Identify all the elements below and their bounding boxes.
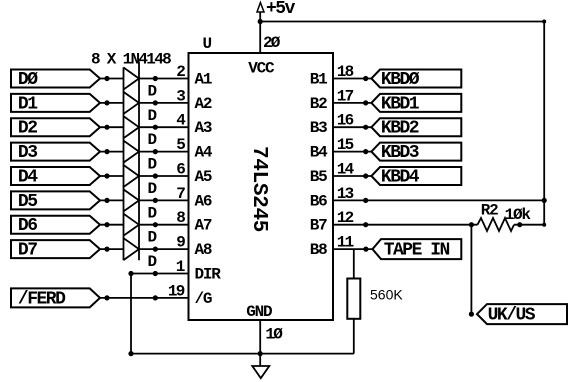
svg-text:D2: D2	[18, 119, 37, 139]
wire diode to pin A7	[139, 224, 189, 226]
wire GND pin 10	[259, 320, 261, 366]
diode D6 (1N4148)	[124, 189, 140, 211]
wire DIR pin 1	[131, 273, 189, 275]
node D4: net tag	[11, 167, 100, 185]
wire R2 to +5v rail	[514, 224, 544, 226]
wire B7 node down to UK/US (vertical)	[470, 225, 472, 314]
wire diode to pin A3	[139, 126, 189, 128]
power +5v symbol	[257, 3, 264, 13]
svg-text:12: 12	[337, 209, 354, 227]
svg-text:D3: D3	[18, 143, 37, 163]
svg-text:A6: A6	[195, 192, 212, 210]
svg-text:11: 11	[337, 234, 354, 252]
svg-text:A2: A2	[195, 95, 212, 113]
svg-text:560K: 560K	[370, 287, 403, 303]
svg-text:D5: D5	[18, 192, 37, 212]
wire DIR to ground rail (vertical)	[130, 274, 132, 354]
svg-text:B1: B1	[310, 71, 327, 89]
svg-text:A3: A3	[195, 119, 212, 137]
svg-text:B7: B7	[310, 217, 327, 235]
diode D4 (1N4148)	[124, 141, 140, 163]
svg-text:D4: D4	[18, 168, 38, 188]
svg-text:+5v: +5v	[266, 0, 296, 19]
svg-text:D6: D6	[18, 216, 37, 236]
svg-text:16: 16	[337, 112, 354, 130]
svg-text:DØ: DØ	[18, 70, 38, 90]
svg-text:1Øk: 1Øk	[505, 206, 532, 224]
diode D8 (1N4148)	[124, 238, 140, 260]
node D5: net tag	[11, 191, 100, 209]
wire pin B6 to +5v rail	[333, 199, 544, 201]
wire +5v rail top	[260, 21, 544, 23]
svg-text:KBD4: KBD4	[381, 168, 420, 188]
svg-text:A4: A4	[195, 144, 213, 162]
svg-text:2Ø: 2Ø	[263, 34, 281, 52]
svg-text:KBD3: KBD3	[381, 143, 419, 163]
svg-text:GND: GND	[246, 303, 272, 321]
value label 74LS245 (vertical)	[247, 146, 270, 232]
wire pin B2 to KBD1	[333, 102, 371, 104]
svg-text:A7: A7	[195, 217, 212, 235]
wire pin B5 to KBD4	[333, 175, 371, 177]
diode D7 (1N4148)	[124, 214, 140, 236]
wire diode to pin A6	[139, 199, 189, 201]
svg-text:6: 6	[176, 161, 185, 179]
svg-text:A8: A8	[195, 241, 212, 259]
svg-text:B6: B6	[310, 192, 327, 210]
wire pin B4 to KBD3	[333, 151, 371, 153]
wire diode to pin A4	[139, 151, 189, 153]
svg-text:D: D	[148, 156, 157, 174]
wire diode to pin A5	[139, 175, 189, 177]
wire pin B3 to KBD2	[333, 126, 371, 128]
svg-text:/FERD: /FERD	[18, 289, 66, 309]
node /FERD: net tag	[11, 288, 100, 307]
wire pin B1 to KBD0	[333, 78, 371, 80]
svg-text:13: 13	[337, 185, 354, 203]
diode array anode bus line	[123, 67, 125, 260]
svg-text:9: 9	[176, 234, 185, 252]
diode array cathode bar line	[138, 62, 140, 261]
svg-text:3: 3	[176, 87, 185, 105]
svg-text:B4: B4	[310, 144, 328, 162]
node KBD4: net tag	[371, 167, 461, 185]
wire /FERD to pin /G	[100, 297, 189, 299]
svg-text:15: 15	[337, 136, 354, 154]
wire pin B7 to R2	[333, 224, 478, 226]
node KBD1: net tag	[371, 94, 461, 112]
wire D2 tag to diode	[100, 126, 124, 128]
wire diode to pin A8	[139, 248, 189, 250]
resistor 560K (box style)	[347, 279, 360, 319]
wire D7 tag to diode	[100, 248, 124, 250]
svg-text:KBD1: KBD1	[381, 94, 420, 114]
svg-text:19: 19	[168, 282, 185, 300]
resistor R2 10k	[478, 218, 515, 231]
svg-text:18: 18	[337, 63, 354, 81]
wire D6 tag to diode	[100, 224, 124, 226]
svg-text:8 X 1N4148: 8 X 1N4148	[91, 51, 171, 69]
wire D4 tag to diode	[100, 175, 124, 177]
svg-text:KBD2: KBD2	[381, 119, 419, 139]
wire pin B8 to TAPE IN	[333, 248, 373, 250]
svg-text:DIR: DIR	[195, 266, 222, 284]
wire 560K to ground rail	[353, 319, 355, 354]
svg-text:B2: B2	[310, 95, 327, 113]
svg-text:17: 17	[337, 87, 354, 105]
node KBD0: net tag	[371, 70, 461, 88]
svg-text:B8: B8	[310, 241, 327, 259]
node D3: net tag	[11, 143, 100, 161]
ground	[252, 366, 269, 378]
wire B8 to resistor 560K	[353, 249, 355, 278]
svg-text:D: D	[148, 131, 157, 149]
svg-text:B3: B3	[310, 119, 327, 137]
node D6: net tag	[11, 216, 100, 234]
svg-text:74LS245: 74LS245	[247, 146, 270, 232]
wire +5v rail right (vertical)	[543, 22, 545, 225]
wire D5 tag to diode	[100, 199, 124, 201]
node D7: net tag	[11, 240, 100, 258]
svg-text:D: D	[148, 253, 157, 271]
svg-text:UK/US: UK/US	[488, 306, 536, 326]
node KBD3: net tag	[371, 143, 461, 161]
wire ground rail	[131, 353, 354, 355]
svg-text:D7: D7	[18, 241, 37, 261]
svg-text:D: D	[148, 107, 157, 125]
diode D1 (1N4148)	[124, 68, 140, 90]
wire D3 tag to diode	[100, 151, 124, 153]
svg-text:1: 1	[176, 258, 185, 276]
svg-text:2: 2	[176, 63, 185, 81]
wire pin 20 to +5v	[259, 12, 261, 53]
node D0: net tag	[11, 70, 100, 88]
wire diode to pin A1	[139, 78, 189, 80]
svg-text:8: 8	[176, 209, 185, 227]
svg-text:R2: R2	[481, 202, 498, 220]
svg-text:D: D	[148, 204, 157, 222]
svg-text:B5: B5	[310, 168, 327, 186]
diode D5 (1N4148)	[124, 165, 140, 187]
wire diode to pin A2	[139, 102, 189, 104]
wire D0 tag to diode	[100, 78, 124, 80]
svg-text:7: 7	[176, 185, 185, 203]
node UK/US: net tag	[477, 304, 567, 324]
svg-text:D: D	[148, 180, 157, 198]
diode D2 (1N4148)	[124, 92, 140, 114]
node KBD2: net tag	[371, 118, 461, 136]
svg-text:D: D	[148, 83, 157, 101]
diode D3 (1N4148)	[124, 116, 140, 138]
node D2: net tag	[11, 118, 100, 136]
svg-text:A1: A1	[195, 71, 212, 89]
svg-text:U: U	[203, 35, 212, 53]
svg-text:1Ø: 1Ø	[265, 326, 283, 344]
svg-text:/G: /G	[195, 290, 212, 308]
node TAPE IN: net tag	[373, 239, 462, 259]
svg-text:5: 5	[176, 136, 185, 154]
svg-text:A5: A5	[195, 168, 212, 186]
svg-text:D1: D1	[18, 94, 38, 114]
node D1: net tag	[11, 94, 100, 112]
svg-text:VCC: VCC	[248, 60, 275, 78]
IC U 74LS245 body	[189, 53, 334, 320]
svg-text:14: 14	[337, 161, 355, 179]
svg-text:TAPE IN: TAPE IN	[384, 241, 450, 261]
wire D1 tag to diode	[100, 102, 124, 104]
svg-text:D: D	[148, 229, 157, 247]
svg-text:KBDØ: KBDØ	[381, 70, 420, 90]
